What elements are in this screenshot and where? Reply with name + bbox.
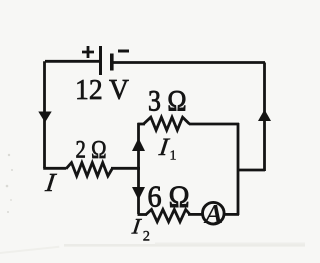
svg-text:I: I xyxy=(43,168,58,197)
svg-text:I: I xyxy=(130,214,143,239)
wire: right outer vertical xyxy=(263,63,266,172)
minus mark xyxy=(118,50,129,53)
svg-text:3 Ω: 3 Ω xyxy=(148,85,187,118)
wire: junction top to resistor R2 xyxy=(138,123,146,126)
current arrow I1 (up) on junction wire xyxy=(132,138,145,151)
svg-text:2 Ω: 2 Ω xyxy=(76,137,107,164)
node: junction vertical wire xyxy=(137,123,140,214)
current arrow (up) on right outer wire xyxy=(258,110,271,122)
resistor R3 6 ohm zigzag xyxy=(146,210,190,222)
wire: right inner vertical xyxy=(237,123,240,215)
wire: middle horizontal to outer right xyxy=(238,169,265,172)
svg-text:2: 2 xyxy=(143,229,150,245)
battery B1 negative plate xyxy=(110,54,114,71)
svg-text:1: 1 xyxy=(170,149,177,164)
wire: resistor R3 to ammeter xyxy=(188,213,203,216)
plus mark xyxy=(82,46,94,58)
battery B1 positive plate xyxy=(99,46,102,75)
faint scan streak bottom xyxy=(64,244,305,247)
wire: top-left from left corner to battery + plate xyxy=(45,60,99,63)
wire: junction bottom to resistor R3 xyxy=(138,213,148,216)
wire: resistor R2 to right inner vertical xyxy=(189,123,239,126)
current arrow I2 (down) on junction wire xyxy=(132,187,145,200)
svg-text:12 V: 12 V xyxy=(75,74,129,106)
resistor R2 3 ohm zigzag xyxy=(144,117,190,130)
wire: top-right from battery - plate to right corner xyxy=(112,61,265,64)
wire: ammeter to right inner vertical xyxy=(224,213,239,216)
current arrow I (down) on left wire xyxy=(38,112,51,123)
label I1 xyxy=(157,134,172,161)
wire: left vertical xyxy=(43,61,46,168)
wire: resistor R1 to junction node xyxy=(111,167,140,170)
svg-text:A: A xyxy=(203,199,223,229)
wire: bottom-left to resistor R1 xyxy=(43,167,66,170)
ammeter A1 circle xyxy=(203,202,225,224)
resistor R1 2 ohm zigzag xyxy=(66,163,112,176)
label I2 xyxy=(130,214,143,239)
faint scan specks left edge xyxy=(6,154,13,213)
label I xyxy=(43,168,58,197)
svg-text:6 Ω: 6 Ω xyxy=(148,179,190,214)
